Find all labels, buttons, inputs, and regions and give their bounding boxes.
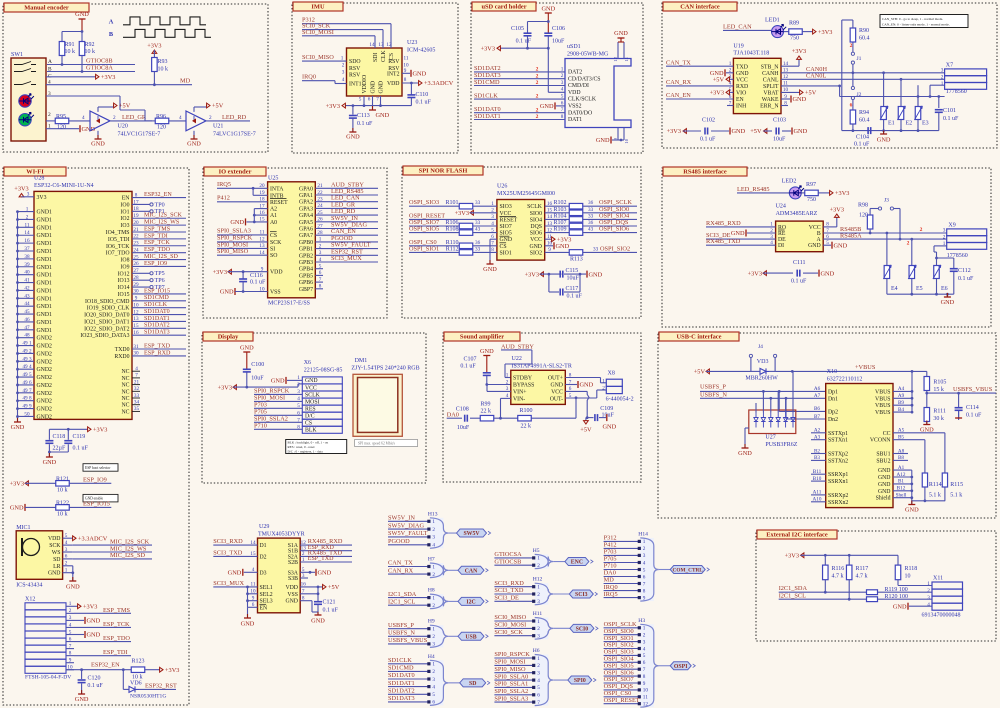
section border uSD card holder bbox=[471, 3, 643, 153]
svg-text:R92: R92 bbox=[85, 42, 95, 48]
svg-text:+5V: +5V bbox=[805, 90, 817, 97]
VDD +5V bbox=[300, 586, 323, 588]
svg-text:+3.3ADCV: +3.3ADCV bbox=[424, 80, 454, 87]
svg-text:SBU1: SBU1 bbox=[876, 452, 890, 458]
ESP32_EN wire from X12 pin10 bbox=[66, 669, 123, 671]
GND flag pin2 bbox=[726, 72, 733, 74]
svg-text:33: 33 bbox=[475, 220, 481, 226]
svg-text:GPA2: GPA2 bbox=[299, 200, 313, 206]
section border USB-C interface bbox=[658, 333, 996, 518]
U20 GND bbox=[97, 131, 99, 139]
svg-text:60.4: 60.4 bbox=[859, 118, 870, 124]
svg-text:9: 9 bbox=[69, 658, 72, 664]
svg-text:P412: P412 bbox=[217, 194, 230, 201]
svg-text:4: 4 bbox=[179, 115, 182, 121]
svg-text:VCC: VCC bbox=[500, 211, 512, 217]
svg-text:40: 40 bbox=[24, 270, 30, 276]
svg-text:SCI3_TXD: SCI3_TXD bbox=[213, 549, 242, 556]
svg-text:+3V3: +3V3 bbox=[165, 667, 179, 674]
R113 on SIO2 bbox=[545, 251, 570, 253]
svg-text:0.1 uF: 0.1 uF bbox=[73, 446, 89, 452]
svg-text:B6: B6 bbox=[814, 406, 820, 412]
svg-text:11: 11 bbox=[643, 695, 648, 701]
svg-text:+3V3: +3V3 bbox=[748, 270, 762, 277]
svg-text:+3V3: +3V3 bbox=[481, 45, 495, 52]
wire into STDBY bbox=[505, 363, 532, 365]
svg-text:2: 2 bbox=[537, 626, 540, 632]
svg-text:I2C: I2C bbox=[466, 600, 475, 606]
svg-text:MOSI: MOSI bbox=[305, 399, 320, 405]
op-amp buffer U21 bbox=[186, 111, 206, 131]
svg-text:ESP_TCK: ESP_TCK bbox=[144, 240, 170, 246]
svg-text:EN: EN bbox=[260, 605, 269, 611]
svg-text:3: 3 bbox=[537, 634, 540, 640]
svg-text:11: 11 bbox=[404, 56, 409, 62]
svg-text:R91: R91 bbox=[65, 42, 75, 48]
VCC wire to +5V node bbox=[565, 390, 587, 392]
svg-text:MCP23S17-E/SS: MCP23S17-E/SS bbox=[268, 301, 310, 307]
svg-text:SIO1: SIO1 bbox=[500, 250, 512, 256]
svg-text:MD: MD bbox=[180, 78, 191, 85]
+3V3 arrow bbox=[497, 47, 501, 49]
svg-text:PGOOD: PGOOD bbox=[388, 538, 410, 545]
svg-text:CS: CS bbox=[500, 244, 507, 250]
harness H7 background bbox=[430, 563, 444, 578]
section title RS485 interface bbox=[663, 167, 747, 176]
svg-text:H3: H3 bbox=[638, 618, 645, 624]
svg-text:SCLK: SCLK bbox=[527, 204, 543, 210]
svg-text:SSRXp1: SSRXp1 bbox=[828, 472, 848, 478]
svg-text:IO13: IO13 bbox=[118, 278, 130, 284]
svg-text:5.1 k: 5.1 k bbox=[929, 493, 941, 499]
svg-text:R94: R94 bbox=[859, 110, 869, 116]
svg-text:ESP32-C6-MINI-1U-N4: ESP32-C6-MINI-1U-N4 bbox=[34, 183, 94, 189]
section title uSD card holder bbox=[472, 2, 536, 11]
svg-text:3: 3 bbox=[432, 535, 435, 541]
svg-text:GND: GND bbox=[941, 299, 955, 306]
svg-text:GND: GND bbox=[794, 128, 808, 135]
svg-text:120: 120 bbox=[157, 125, 166, 131]
svg-text:SPI max. speed 62 Mbit/s: SPI max. speed 62 Mbit/s bbox=[358, 442, 396, 446]
section title USB-C interface bbox=[659, 332, 739, 341]
harness tag SPI0 bbox=[553, 679, 568, 681]
svg-text:R97: R97 bbox=[806, 182, 816, 188]
svg-text:IRQ5: IRQ5 bbox=[604, 591, 618, 598]
svg-text:VBAT: VBAT bbox=[763, 91, 779, 97]
svg-text:U29: U29 bbox=[259, 524, 269, 530]
svg-text:C116: C116 bbox=[250, 273, 263, 279]
svg-text:SSRXn1: SSRXn1 bbox=[828, 479, 848, 485]
svg-text:C117: C117 bbox=[566, 286, 579, 292]
svg-text:4: 4 bbox=[537, 678, 540, 684]
svg-text:6: 6 bbox=[643, 660, 646, 666]
svg-text:R107: R107 bbox=[554, 220, 567, 226]
svg-text:VSS: VSS bbox=[287, 592, 298, 598]
svg-text:1: 1 bbox=[69, 601, 72, 607]
harness H14 brace bbox=[640, 538, 659, 601]
GND top of C107 bbox=[483, 355, 490, 357]
svg-text:SD1DAT1: SD1DAT1 bbox=[388, 680, 415, 687]
svg-text:B: B bbox=[817, 231, 821, 237]
svg-text:1: 1 bbox=[941, 81, 944, 87]
wire X7 pin3 bbox=[930, 84, 945, 86]
svg-text:R116: R116 bbox=[832, 566, 845, 572]
svg-text:0.1 uF: 0.1 uF bbox=[567, 294, 583, 300]
svg-text:10: 10 bbox=[905, 574, 911, 580]
svg-text:MBR260HW: MBR260HW bbox=[745, 376, 778, 382]
svg-text:SW1: SW1 bbox=[11, 52, 23, 58]
svg-text:BYPASS: BYPASS bbox=[513, 383, 534, 389]
svg-text:74LVC1G17SE-7: 74LVC1G17SE-7 bbox=[213, 132, 256, 138]
svg-text:CLK/SCLK: CLK/SCLK bbox=[568, 97, 597, 103]
svg-text:30 k: 30 k bbox=[933, 416, 944, 422]
svg-text:GND1: GND1 bbox=[37, 304, 53, 310]
svg-text:SSTXp1: SSTXp1 bbox=[828, 431, 848, 437]
svg-text:2: 2 bbox=[643, 633, 646, 639]
svg-text:GND: GND bbox=[738, 450, 752, 457]
svg-text:GND2: GND2 bbox=[37, 383, 53, 389]
svg-text:P703: P703 bbox=[604, 549, 617, 556]
GND top bbox=[545, 12, 552, 14]
svg-text:SW5V_DIAG: SW5V_DIAG bbox=[388, 522, 424, 529]
svg-text:TMUX4053DYYR: TMUX4053DYYR bbox=[258, 531, 305, 537]
svg-text:37: 37 bbox=[24, 246, 30, 252]
svg-text:1: 1 bbox=[643, 626, 646, 632]
svg-text:22µF: 22µF bbox=[53, 446, 66, 452]
svg-text:SW5V_FAULT: SW5V_FAULT bbox=[388, 530, 428, 537]
resistor R114 bbox=[922, 473, 927, 487]
svg-text:C115: C115 bbox=[566, 268, 579, 274]
svg-text:X10: X10 bbox=[827, 369, 837, 375]
resistor R115 bbox=[942, 473, 947, 487]
GND flag at INT2 bbox=[402, 72, 410, 74]
svg-text:C111: C111 bbox=[793, 260, 806, 266]
svg-text:C107: C107 bbox=[463, 357, 476, 363]
svg-text:GND: GND bbox=[87, 618, 101, 625]
wire VIN- to R99/R100 node bbox=[501, 397, 511, 399]
svg-text:GND1: GND1 bbox=[37, 328, 53, 334]
svg-text:ICS-43434: ICS-43434 bbox=[16, 583, 42, 589]
section title Sound amplifier bbox=[444, 332, 520, 341]
Dp2 Dn2 branch wires bbox=[778, 391, 780, 411]
svg-text:GND: GND bbox=[877, 137, 891, 144]
svg-text:SSTXn1: SSTXn1 bbox=[828, 438, 848, 444]
wire C107 to BYPASS bbox=[487, 384, 511, 386]
svg-text:Dn1: Dn1 bbox=[828, 396, 838, 402]
connector X7 bbox=[945, 69, 987, 76]
svg-text:FTSH-105-04-F-DV: FTSH-105-04-F-DV bbox=[25, 675, 71, 681]
svg-text:SD1CMD: SD1CMD bbox=[144, 295, 169, 301]
svg-text:SPI NOR FLASH: SPI NOR FLASH bbox=[419, 168, 468, 175]
svg-text:0.1 uF: 0.1 uF bbox=[966, 413, 982, 419]
svg-text:SCI3_DE: SCI3_DE bbox=[494, 595, 519, 602]
svg-text:10uF: 10uF bbox=[567, 276, 580, 282]
svg-text:3: 3 bbox=[943, 228, 946, 234]
R90 chain vertical bbox=[852, 64, 854, 72]
svg-text:+3V3: +3V3 bbox=[218, 384, 232, 391]
svg-text:4.7 k: 4.7 k bbox=[856, 574, 868, 580]
svg-text:ESP_TDO: ESP_TDO bbox=[103, 635, 130, 642]
svg-text:GPA1: GPA1 bbox=[299, 193, 313, 199]
svg-text:1: 1 bbox=[537, 585, 540, 591]
svg-text:ESP_IO9: ESP_IO9 bbox=[83, 476, 107, 483]
+5V arrow down bbox=[585, 420, 587, 424]
svg-text:RESET: RESET bbox=[270, 200, 288, 206]
svg-text:USBFS_P: USBFS_P bbox=[388, 622, 414, 629]
svg-text:12: 12 bbox=[386, 42, 392, 48]
svg-text:RE: RE bbox=[778, 231, 786, 237]
svg-text:GND: GND bbox=[379, 81, 385, 94]
svg-text:49 8: 49 8 bbox=[22, 396, 31, 402]
svg-text:1: 1 bbox=[432, 627, 435, 633]
VSS GND wire bbox=[300, 593, 318, 595]
capacitor C113 bbox=[352, 106, 354, 115]
+3V3 rail ext I2C bbox=[801, 554, 805, 556]
svg-text:R98: R98 bbox=[858, 203, 868, 209]
svg-text:13: 13 bbox=[378, 42, 384, 48]
svg-text:USB-C interface: USB-C interface bbox=[677, 334, 722, 341]
resistor R123 bbox=[123, 669, 131, 671]
svg-text:2: 2 bbox=[48, 112, 51, 118]
+3V3 at 3V3 pin bbox=[21, 194, 23, 198]
svg-text:ESP_TDI: ESP_TDI bbox=[103, 649, 128, 656]
svg-text:5: 5 bbox=[359, 97, 362, 103]
svg-text:2: 2 bbox=[536, 107, 539, 113]
svg-text:P703: P703 bbox=[254, 402, 267, 409]
svg-text:TP6: TP6 bbox=[155, 278, 165, 284]
capacitor C104 bbox=[867, 127, 869, 134]
svg-text:DM1: DM1 bbox=[355, 358, 368, 364]
wire U20 out LED_GR bbox=[110, 120, 152, 122]
harness H12 brace bbox=[535, 583, 554, 605]
svg-text:GND1: GND1 bbox=[37, 312, 53, 318]
wire top rail caps bbox=[528, 21, 549, 23]
svg-text:GND2: GND2 bbox=[37, 399, 53, 405]
GND pin10 right bbox=[545, 245, 553, 247]
OUT+ to X8 pin1 bbox=[565, 377, 600, 379]
bottom rail to GND bbox=[912, 500, 945, 502]
svg-text:VD6: VD6 bbox=[130, 681, 142, 687]
svg-text:GND: GND bbox=[11, 424, 25, 431]
capacitor C120 bbox=[81, 670, 83, 679]
svg-text:+3V3: +3V3 bbox=[213, 269, 227, 276]
GND below C118 bbox=[46, 456, 53, 458]
svg-text:P705: P705 bbox=[604, 556, 617, 563]
svg-text:External I2C interface: External I2C interface bbox=[766, 532, 828, 539]
svg-text:R109: R109 bbox=[554, 227, 567, 233]
svg-text:H13: H13 bbox=[428, 511, 438, 517]
svg-text:S3B: S3B bbox=[288, 576, 298, 582]
svg-text:R99: R99 bbox=[481, 402, 491, 408]
svg-text:D1: D1 bbox=[260, 543, 267, 549]
svg-text:MIC_I2S_SD: MIC_I2S_SD bbox=[144, 254, 178, 260]
svg-text:SCI3_MUX: SCI3_MUX bbox=[331, 255, 362, 262]
svg-text:ESP_IO9: ESP_IO9 bbox=[144, 261, 167, 267]
svg-text:C105: C105 bbox=[511, 26, 524, 32]
svg-text:H14: H14 bbox=[638, 531, 648, 537]
svg-text:uSD card holder: uSD card holder bbox=[481, 4, 526, 11]
svg-text:D2: D2 bbox=[260, 554, 267, 560]
svg-text:GND: GND bbox=[732, 128, 746, 135]
harness H4 brace bbox=[430, 660, 449, 705]
svg-text:R117: R117 bbox=[856, 566, 869, 572]
svg-text:SD1CLK: SD1CLK bbox=[474, 92, 498, 99]
svg-text:ESP_RXD: ESP_RXD bbox=[144, 350, 171, 356]
svg-text:VSS: VSS bbox=[270, 290, 281, 296]
svg-text:GND: GND bbox=[75, 696, 89, 703]
svg-text:IRQ0: IRQ0 bbox=[604, 584, 618, 591]
svg-text:60.4: 60.4 bbox=[859, 36, 870, 42]
svg-text:R93: R93 bbox=[158, 59, 168, 65]
svg-text:2: 2 bbox=[506, 379, 509, 385]
svg-text:OSPI_SIO2: OSPI_SIO2 bbox=[600, 245, 630, 252]
wire GND to resistors bbox=[62, 31, 82, 33]
svg-text:U27: U27 bbox=[765, 435, 775, 441]
svg-text:0.1 uF: 0.1 uF bbox=[700, 137, 716, 143]
svg-text:2: 2 bbox=[297, 382, 300, 388]
svg-text:+5V: +5V bbox=[328, 584, 340, 591]
svg-text:GND: GND bbox=[834, 242, 848, 249]
svg-text:+VBUS: +VBUS bbox=[855, 364, 876, 371]
svg-text:1: 1 bbox=[506, 372, 509, 378]
svg-text:GND1: GND1 bbox=[37, 320, 53, 326]
resistor R117 bbox=[848, 555, 850, 565]
svg-text:CS: CS bbox=[305, 421, 312, 427]
svg-text:10 k: 10 k bbox=[57, 488, 68, 494]
svg-text:GND2: GND2 bbox=[37, 375, 53, 381]
svg-text:GND2: GND2 bbox=[37, 391, 53, 397]
SBU stubs bbox=[893, 453, 908, 455]
GND below C113 bbox=[349, 131, 356, 133]
svg-text:+5V: +5V bbox=[750, 128, 762, 135]
harness H4 background bbox=[430, 660, 444, 705]
harness H8 background bbox=[430, 594, 444, 609]
svg-text:0.1 uF: 0.1 uF bbox=[416, 100, 432, 106]
svg-text:ZJY-1.54'IPS 240*240 RGB: ZJY-1.54'IPS 240*240 RGB bbox=[351, 366, 419, 372]
svg-text:2: 2 bbox=[432, 669, 435, 675]
svg-text:GND2: GND2 bbox=[37, 344, 53, 350]
resistor R91 bbox=[59, 42, 65, 56]
svg-text:P312: P312 bbox=[604, 535, 617, 542]
svg-text:10: 10 bbox=[643, 688, 649, 694]
svg-text:GND2: GND2 bbox=[37, 407, 53, 413]
+5V input bbox=[706, 370, 710, 372]
svg-text:0.1 uF: 0.1 uF bbox=[791, 279, 807, 285]
svg-text:H9: H9 bbox=[428, 619, 435, 625]
svg-text:E3: E3 bbox=[922, 121, 929, 127]
wire VDD to +3.3ADCV bbox=[402, 82, 419, 84]
svg-text:C118: C118 bbox=[53, 434, 66, 440]
svg-text:IO6_TCK: IO6_TCK bbox=[106, 244, 130, 250]
svg-text:5: 5 bbox=[643, 567, 646, 573]
capacitor C117 bbox=[548, 274, 550, 292]
svg-text:SPLIT: SPLIT bbox=[763, 84, 779, 90]
wire pin3 LED red bbox=[46, 95, 120, 97]
svg-text:GTIOCSB: GTIOCSB bbox=[494, 558, 521, 565]
svg-text:J1: J1 bbox=[857, 56, 862, 62]
square wave B bbox=[123, 29, 211, 37]
svg-text:NC: NC bbox=[121, 403, 129, 409]
svg-text:SIO0: SIO0 bbox=[530, 211, 542, 217]
VCONN wire to R114 bbox=[893, 439, 925, 441]
svg-text:GND: GND bbox=[540, 103, 554, 110]
svg-text:GND: GND bbox=[75, 11, 89, 18]
svg-text:P705: P705 bbox=[254, 409, 267, 416]
section title WI-FI bbox=[4, 167, 66, 176]
wire pin4 MD row bbox=[46, 84, 154, 86]
svg-text:SD1CLK: SD1CLK bbox=[388, 657, 412, 664]
svg-text:IO2: IO2 bbox=[120, 216, 129, 222]
svg-text:CC: CC bbox=[883, 431, 891, 437]
svg-text:SEL2: SEL2 bbox=[260, 592, 273, 598]
svg-text:NC: NC bbox=[121, 369, 129, 375]
wire C107 to VIN+ bbox=[486, 385, 488, 392]
svg-text:IO4_TMS: IO4_TMS bbox=[106, 230, 130, 236]
svg-text:6: 6 bbox=[368, 97, 371, 103]
capacitor C118 C119 decoupling bbox=[49, 428, 88, 430]
right side resistors to OSPI bus bbox=[545, 205, 570, 207]
svg-text:GND: GND bbox=[603, 424, 617, 431]
svg-text:1: 1 bbox=[432, 595, 435, 601]
svg-text:IO7_TDO: IO7_TDO bbox=[106, 251, 130, 257]
svg-text:RES: RES bbox=[305, 406, 316, 412]
svg-text:2: 2 bbox=[432, 634, 435, 640]
svg-text:VBUS: VBUS bbox=[875, 396, 890, 402]
harness H6 background bbox=[535, 655, 549, 706]
wire SCI0_MOSI to SDI bbox=[302, 35, 375, 37]
svg-text:IO1: IO1 bbox=[120, 209, 129, 215]
svg-text:H6: H6 bbox=[533, 648, 540, 654]
svg-text:RS485 interface: RS485 interface bbox=[683, 169, 727, 176]
harness tag USB bbox=[448, 635, 458, 637]
svg-text:7: 7 bbox=[643, 667, 646, 673]
svg-text:GND: GND bbox=[311, 618, 325, 625]
svg-text:CANL: CANL bbox=[763, 77, 779, 83]
svg-text:SCI0_MOSI: SCI0_MOSI bbox=[494, 622, 526, 629]
svg-text:SPI0_RSPCK: SPI0_RSPCK bbox=[254, 388, 290, 395]
svg-text:P412: P412 bbox=[604, 542, 617, 549]
bottom-right pins to GND bbox=[617, 128, 619, 141]
harness tag OSPI bbox=[659, 665, 670, 667]
svg-text:H4: H4 bbox=[428, 654, 435, 660]
svg-text:ERR_N: ERR_N bbox=[760, 104, 779, 110]
svg-text:VCC: VCC bbox=[305, 385, 317, 391]
resistor R90 bbox=[850, 28, 856, 42]
pin7 INH stub bbox=[727, 105, 733, 107]
IC U24 ADM3485EARZ bbox=[776, 221, 824, 252]
svg-text:GPA0: GPA0 bbox=[299, 186, 313, 192]
svg-text:R102: R102 bbox=[554, 200, 567, 206]
svg-text:U24: U24 bbox=[776, 204, 786, 210]
svg-text:SCI0_MISO: SCI0_MISO bbox=[494, 614, 526, 621]
svg-text:SIO4: SIO4 bbox=[530, 217, 542, 223]
svg-text:X7: X7 bbox=[946, 63, 953, 69]
svg-text:SIO7: SIO7 bbox=[500, 224, 512, 230]
svg-text:SPI0_MOSI: SPI0_MOSI bbox=[494, 659, 525, 666]
svg-text:GND: GND bbox=[821, 270, 835, 277]
svg-text:2: 2 bbox=[536, 73, 539, 79]
svg-text:CAN: CAN bbox=[465, 568, 478, 574]
svg-text:GND1: GND1 bbox=[37, 241, 53, 247]
svg-text:R95: R95 bbox=[56, 114, 66, 120]
svg-text:1: 1 bbox=[65, 568, 68, 574]
svg-text:H7: H7 bbox=[428, 557, 435, 563]
svg-text:C120: C120 bbox=[87, 676, 100, 682]
svg-text:GND2: GND2 bbox=[37, 367, 53, 373]
svg-text:2: 2 bbox=[850, 43, 853, 49]
svg-text:7: 7 bbox=[376, 97, 379, 103]
harness tag CAN bbox=[448, 569, 458, 571]
